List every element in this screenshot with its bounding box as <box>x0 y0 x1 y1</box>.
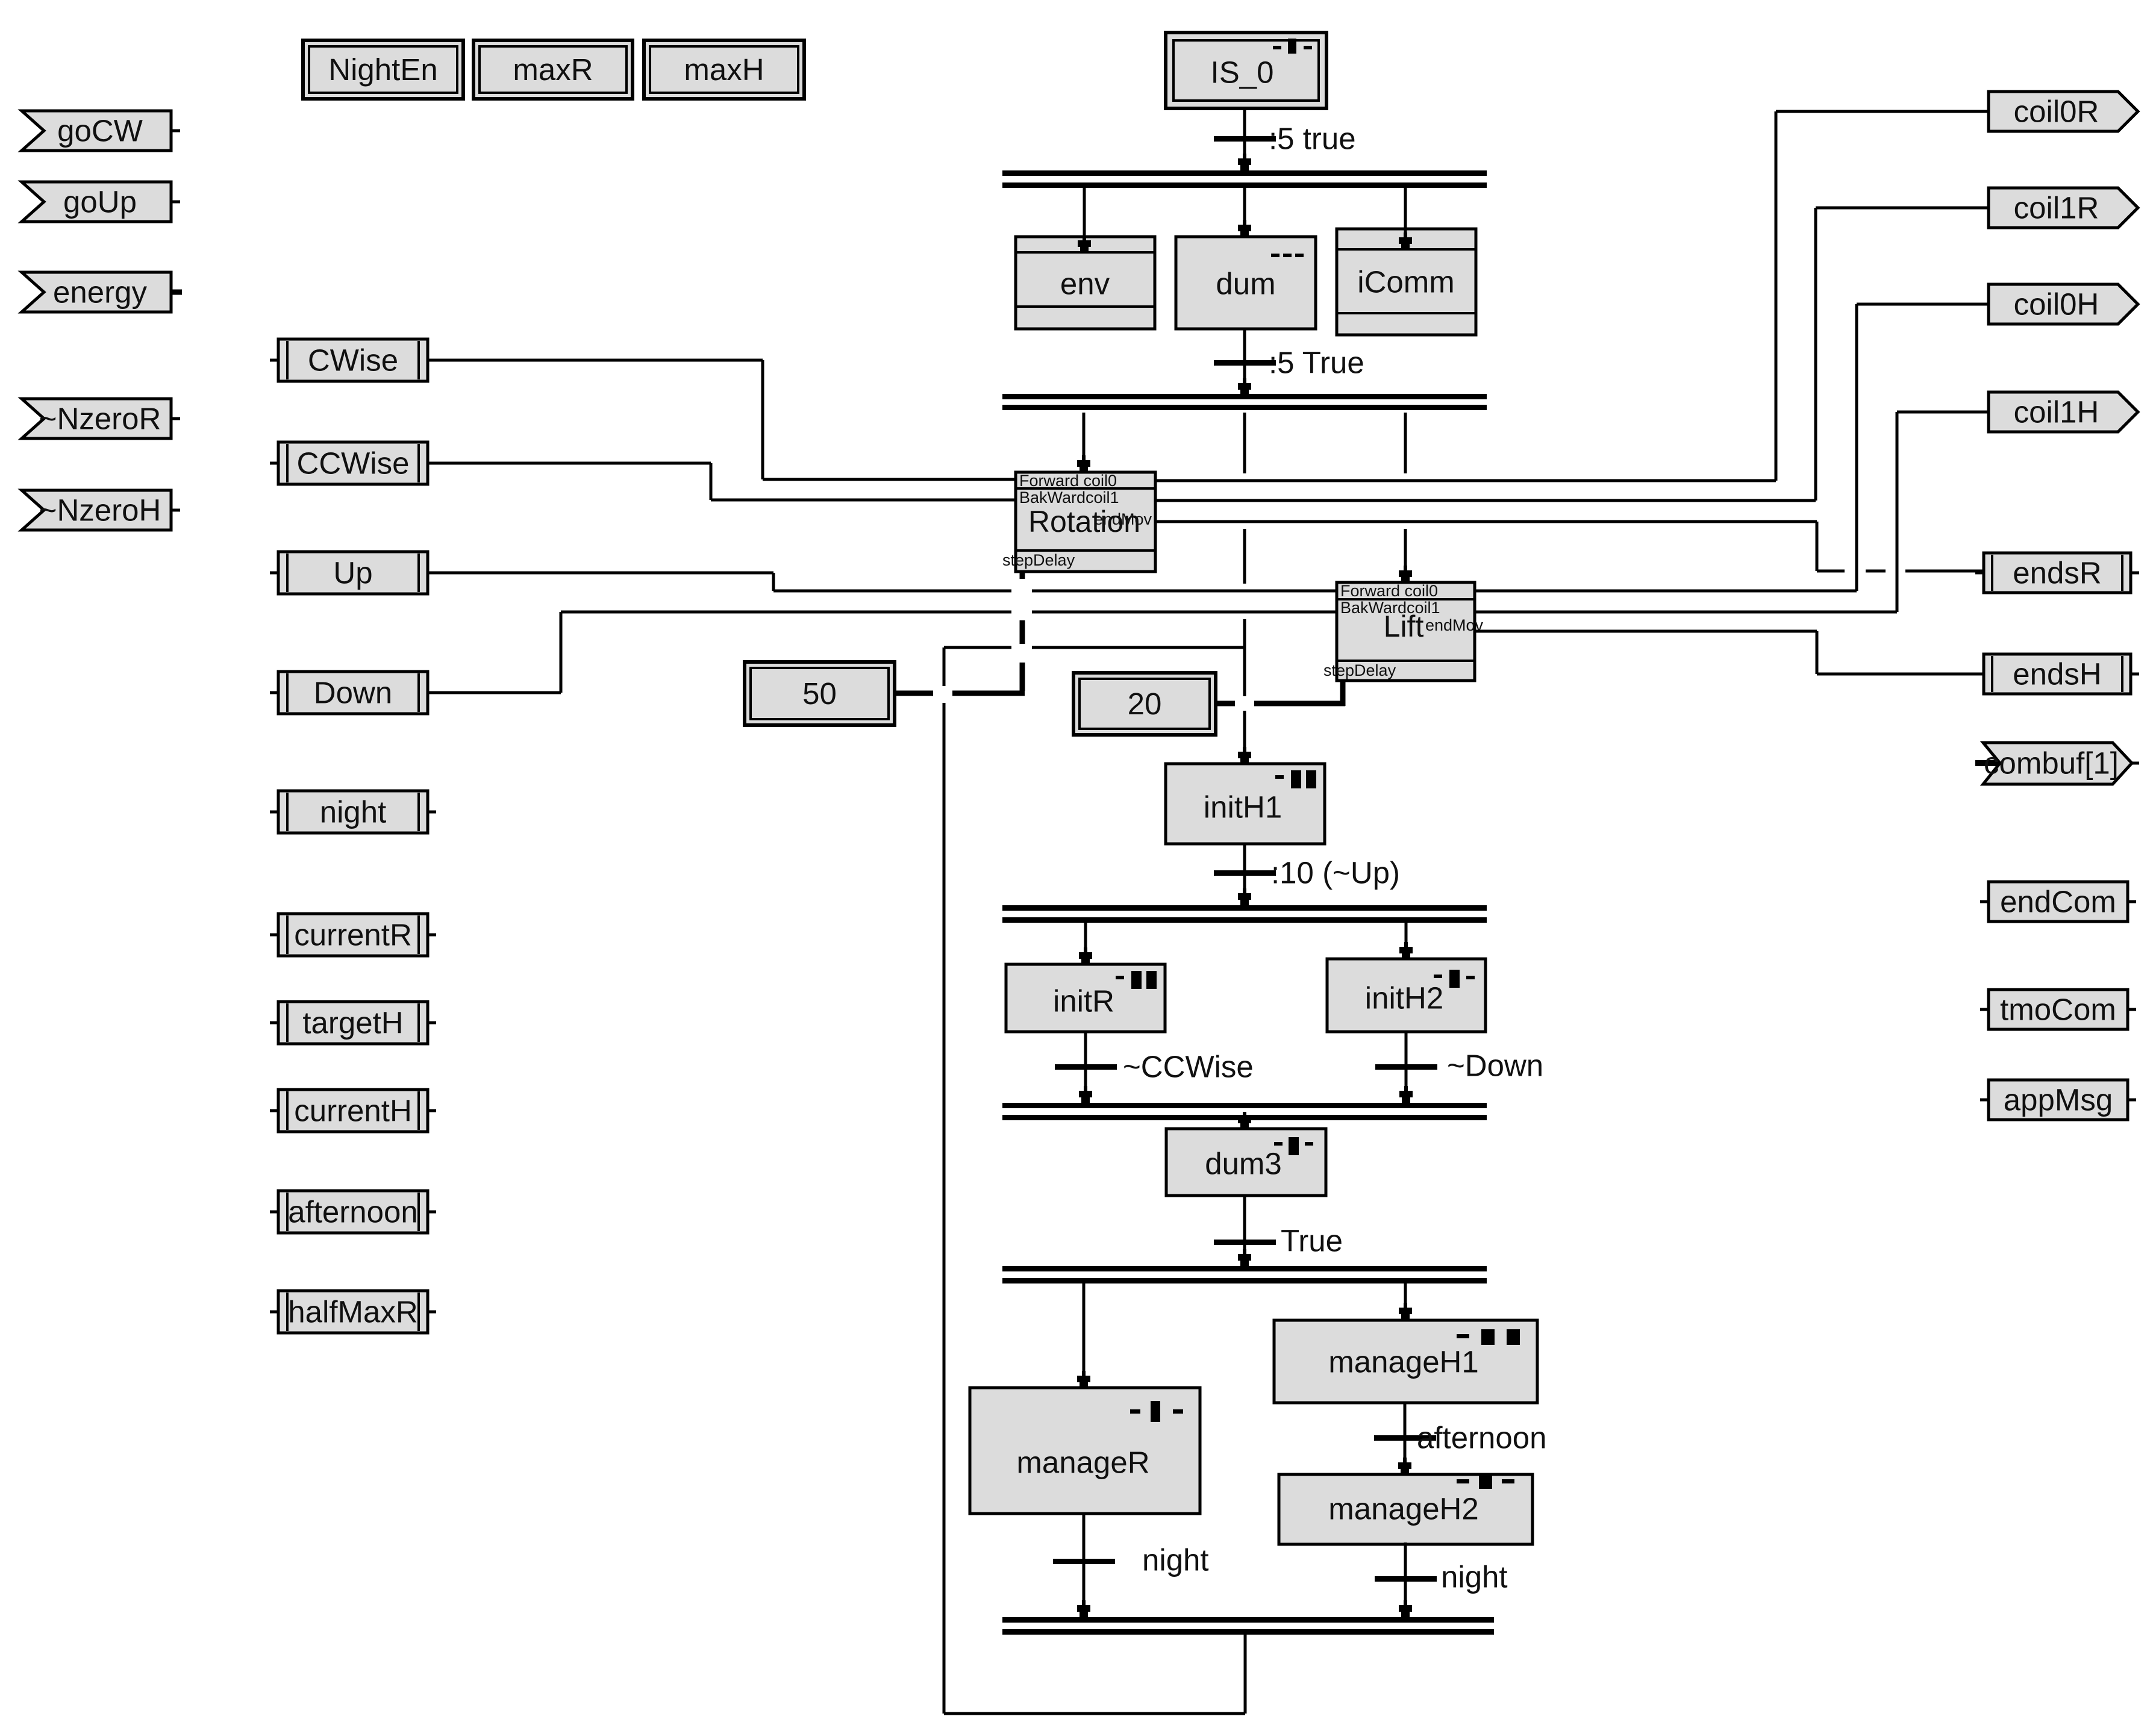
parallel fork bar 1 <box>1002 170 1487 188</box>
svg-text:initH1: initH1 <box>1204 790 1282 825</box>
output tag appMsg <box>1980 1080 2136 1120</box>
wire bar1 to dum <box>1238 188 1251 238</box>
svg-text:Up: Up <box>333 556 372 590</box>
wire bar3 to initH2 <box>1399 923 1413 960</box>
transition ~Down <box>1375 1049 1543 1083</box>
svg-text:Down: Down <box>314 676 392 710</box>
action variable tag Down <box>270 672 428 714</box>
parameter box NightEn <box>303 40 463 99</box>
wire manageH1 to manageH2 <box>1398 1403 1411 1476</box>
svg-text::10 (~Up): :10 (~Up) <box>1271 856 1400 890</box>
wire Down to Lift BakWard input <box>428 612 1337 693</box>
output tag coil1H <box>1989 392 2138 432</box>
wire manageR down to join bar 6 <box>1077 1514 1090 1618</box>
output tag endCom <box>1980 882 2136 922</box>
svg-text:50: 50 <box>802 676 837 711</box>
svg-text::5 true: :5 true <box>1269 122 1356 156</box>
step manageH1 <box>1274 1320 1537 1403</box>
wire Lift endMov output to endsH <box>1475 631 1984 674</box>
svg-text:goUp: goUp <box>63 185 137 219</box>
input tag energy <box>22 272 182 312</box>
parameter box maxH <box>644 40 804 99</box>
svg-text:currentR: currentR <box>294 918 412 952</box>
svg-text:afternoon: afternoon <box>288 1195 418 1229</box>
thick wire 50 to Rotation stepDelay <box>895 572 1025 693</box>
svg-text:stepDelay: stepDelay <box>1323 661 1396 679</box>
svg-text:Forward coil0: Forward coil0 <box>1019 472 1117 490</box>
svg-text:~Down: ~Down <box>1447 1049 1543 1083</box>
svg-text:endsR: endsR <box>2013 556 2101 590</box>
initial step IS_0 <box>1166 33 1326 108</box>
svg-text:iComm: iComm <box>1357 265 1455 299</box>
svg-text:coil0H: coil0H <box>2014 287 2099 322</box>
svg-text:~NzeroH: ~NzeroH <box>39 493 161 528</box>
wire manageH2 down to join bar 6 <box>1399 1542 1412 1618</box>
svg-text:manageH2: manageH2 <box>1328 1492 1479 1526</box>
svg-text:~CCWise: ~CCWise <box>1123 1050 1254 1084</box>
output tag endsH <box>1975 654 2139 694</box>
wire initH2 down to join bar 4 <box>1399 1032 1413 1104</box>
svg-text:targetH: targetH <box>302 1006 403 1040</box>
svg-text:coil0R: coil0R <box>2014 95 2099 129</box>
svg-text:dum: dum <box>1216 267 1275 301</box>
constant box 20 <box>1073 673 1216 735</box>
svg-text:appMsg: appMsg <box>2004 1083 2113 1117</box>
svg-text:Forward coil0: Forward coil0 <box>1340 582 1438 600</box>
transition night left <box>1053 1543 1209 1577</box>
svg-text:endCom: endCom <box>2000 885 2116 919</box>
wire bar4 to dum3 <box>1238 1112 1251 1130</box>
action variable tag afternoon <box>270 1191 436 1233</box>
wire CCWise to Rotation BakWard input <box>428 463 1016 500</box>
wire bar2 to Rotation <box>1077 413 1090 473</box>
svg-text:maxR: maxR <box>513 52 593 87</box>
svg-text::5 True: :5 True <box>1269 346 1364 380</box>
wire bar2 to Lift <box>1399 413 1412 584</box>
svg-text:20: 20 <box>1128 687 1162 721</box>
transition :5 true <box>1214 122 1356 156</box>
transition :10 (~Up) <box>1214 856 1400 890</box>
step manageR <box>970 1388 1200 1514</box>
svg-text:afternoon: afternoon <box>1417 1421 1547 1455</box>
action variable tag currentR <box>270 914 436 956</box>
svg-text:night: night <box>320 795 387 829</box>
step dum <box>1176 237 1316 329</box>
wire bar5 to manageH1 <box>1399 1283 1412 1321</box>
wire initH1 to fork bar 3 <box>1238 844 1251 906</box>
transition True <box>1214 1224 1343 1258</box>
svg-text:NightEn: NightEn <box>328 52 437 87</box>
parallel fork bar 5 <box>1002 1266 1487 1283</box>
wire bar3 to initR <box>1079 923 1092 965</box>
svg-text:night: night <box>1441 1560 1508 1594</box>
wire bar5 to manageR <box>1077 1283 1090 1389</box>
wire dum3 to fork bar 5 <box>1238 1196 1251 1267</box>
svg-text:BakWardcoil1: BakWardcoil1 <box>1019 488 1119 507</box>
svg-text:CWise: CWise <box>308 343 398 378</box>
input tag ~NzeroH <box>22 490 180 530</box>
step initH1 <box>1166 764 1325 844</box>
wire Rotation coil1 output to coil1R <box>1155 208 1989 501</box>
wire Rotation coil0 output to coil0R <box>1155 111 1989 481</box>
svg-text:combuf[1]: combuf[1] <box>1984 746 2119 781</box>
svg-text:endsH: endsH <box>2013 657 2101 691</box>
step initR <box>1006 964 1165 1032</box>
svg-text:CCWise: CCWise <box>297 446 410 481</box>
action variable tag CWise <box>270 339 428 381</box>
wire bar1 to env <box>1078 188 1091 254</box>
svg-text:initR: initR <box>1053 984 1114 1018</box>
action variable tag halfMaxR <box>270 1291 436 1333</box>
step manageH2 <box>1279 1474 1533 1544</box>
svg-text:night: night <box>1142 1543 1209 1577</box>
wire Lift coil0 output to coil0H <box>1475 304 1989 591</box>
wire CWise to Rotation Forward input <box>428 360 1016 479</box>
output tag coil0R <box>1989 92 2138 131</box>
output tag coil0H <box>1989 284 2138 324</box>
output tag combuf[1] <box>1975 743 2139 784</box>
svg-text:env: env <box>1060 267 1110 301</box>
wire initR down to join bar 4 <box>1079 1032 1092 1104</box>
svg-text:Rotation: Rotation <box>1028 505 1140 538</box>
svg-text:currentH: currentH <box>294 1094 412 1128</box>
parallel join bar 4 <box>1002 1103 1487 1120</box>
wire bar1 to iComm <box>1399 188 1412 251</box>
svg-text:tmoCom: tmoCom <box>2000 993 2116 1027</box>
transition night right <box>1375 1560 1508 1594</box>
input tag goUp <box>22 182 180 222</box>
action variable tag currentH <box>270 1090 436 1132</box>
output tag tmoCom <box>1980 990 2136 1029</box>
action variable tag Up <box>270 552 428 594</box>
svg-text:goCW: goCW <box>57 114 143 148</box>
wire IS_0 to fork bar 1 <box>1238 108 1251 172</box>
macro block Lift <box>1323 582 1484 681</box>
loop return wire from join bar 6 back to center line <box>944 647 1245 1714</box>
macro step env <box>1016 237 1155 329</box>
step dum3 <box>1166 1129 1326 1196</box>
svg-text:manageR: manageR <box>1016 1446 1149 1480</box>
parallel fork bar 3 <box>1002 905 1487 923</box>
svg-text:IS_0: IS_0 <box>1211 55 1274 90</box>
wire Lift coil1 output to coil1H <box>1475 412 1989 612</box>
svg-text:True: True <box>1281 1224 1343 1258</box>
svg-text:coil1R: coil1R <box>2014 191 2099 225</box>
svg-text:initH2: initH2 <box>1365 981 1443 1015</box>
output tag coil1R <box>1989 188 2138 228</box>
wire dum to fork bar 2 <box>1238 329 1251 396</box>
svg-text:maxH: maxH <box>684 52 764 87</box>
wire Rotation endMov output to endsR <box>1155 522 1984 571</box>
thick wire 20 to Lift stepDelay <box>1216 681 1345 706</box>
svg-text:manageH1: manageH1 <box>1328 1345 1479 1379</box>
step initH2 <box>1327 959 1486 1032</box>
svg-text:energy: energy <box>53 275 147 310</box>
wire bar2 down to initH1 (center line) <box>1238 413 1251 765</box>
transition :5 True <box>1214 346 1364 380</box>
input tag ~NzeroR <box>22 399 180 438</box>
svg-text:halfMaxR: halfMaxR <box>288 1295 417 1329</box>
parallel fork bar 2 <box>1002 394 1487 410</box>
svg-text:dum3: dum3 <box>1205 1147 1282 1181</box>
svg-text:Lift: Lift <box>1384 610 1424 643</box>
macro block Rotation <box>1002 472 1155 572</box>
parameter box maxR <box>473 40 633 99</box>
svg-text:stepDelay: stepDelay <box>1002 551 1075 569</box>
svg-text:~NzeroR: ~NzeroR <box>39 402 161 436</box>
input tag goCW <box>22 111 180 151</box>
wire Up to Lift Forward input <box>428 573 1337 591</box>
macro step iComm <box>1337 229 1476 335</box>
action variable tag targetH <box>270 1002 436 1044</box>
transition ~CCWise <box>1055 1050 1254 1084</box>
action variable tag night <box>270 791 436 833</box>
svg-text:coil1H: coil1H <box>2014 395 2099 429</box>
parallel join bar 6 <box>1002 1617 1494 1635</box>
output tag endsR <box>1975 553 2139 593</box>
transition afternoon <box>1374 1421 1547 1455</box>
action variable tag CCWise <box>270 442 428 484</box>
constant box 50 <box>745 662 895 725</box>
